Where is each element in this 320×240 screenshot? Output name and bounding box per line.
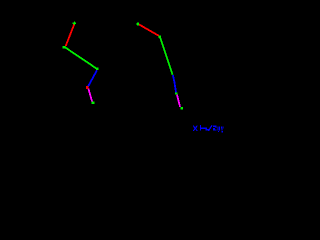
glyph X: [193, 126, 197, 131]
node P3 red dot: [86, 86, 89, 89]
wire blue L3: [88, 70, 97, 86]
wire green R2: [160, 37, 173, 75]
wire red L1: [66, 24, 75, 46]
glyph W: [217, 126, 218, 130]
node Q3 green dot: [175, 92, 178, 94]
node P2 green dot: [96, 68, 99, 71]
wire magenta L4: [88, 89, 92, 102]
node Q0 green dot: [137, 23, 139, 26]
node Q1 green dot: [159, 36, 161, 38]
wire blue R3: [173, 75, 176, 92]
wire green L2: [65, 47, 97, 68]
node P4 green dot: [92, 102, 95, 105]
wire red R1: [139, 24, 159, 36]
wire magenta R4: [177, 95, 180, 107]
node P0 green cross: [73, 22, 77, 26]
glyph Y: [221, 126, 222, 128]
node P1 green dot: [63, 46, 66, 49]
blue caption text bottom right: [193, 125, 223, 133]
glyph slash: [208, 125, 212, 130]
glyph cluster fmu: [200, 125, 201, 131]
glyph 2: [213, 126, 216, 127]
node Q4 green dot: [180, 107, 183, 110]
